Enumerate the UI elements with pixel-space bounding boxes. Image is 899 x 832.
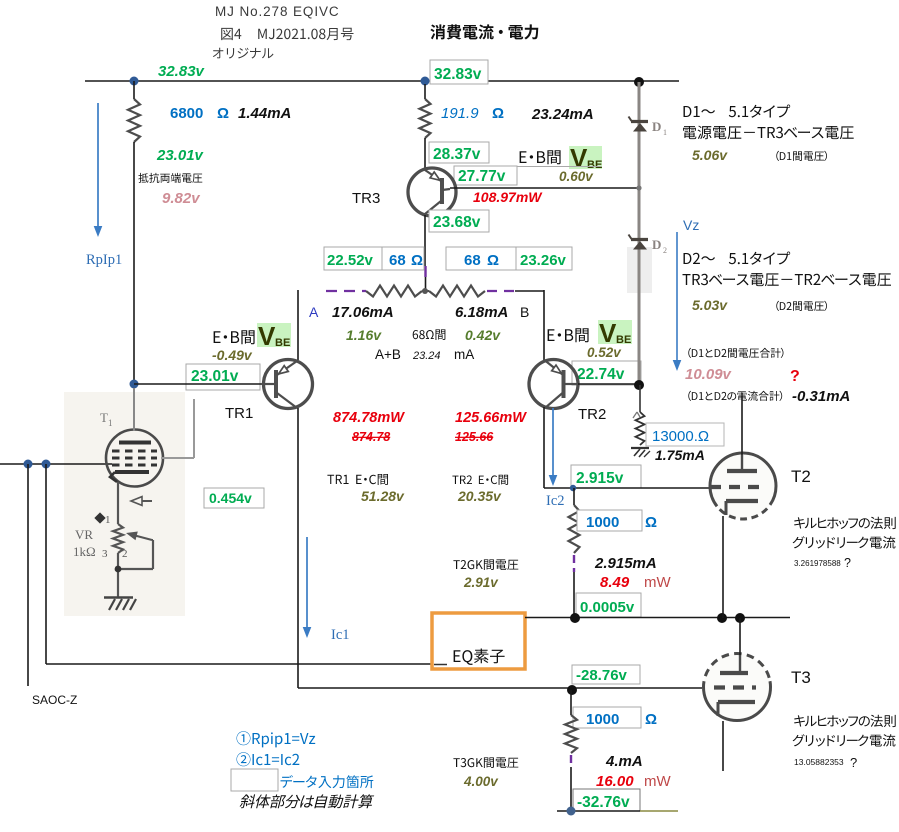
label TR2 E・C間 [452,475,508,485]
svg-text:2: 2 [663,246,667,255]
node 68row junction [422,288,429,294]
svg-text:1.44mA: 1.44mA [238,105,291,122]
wire TR2 base to node [578,383,639,385]
wire T1 cathode [117,482,119,524]
label 0.42v [465,327,501,343]
label 8.49 mW [600,574,671,591]
purple mark TR3 column [424,266,426,277]
wire TR3 base to diode chain [450,187,639,189]
label D2 type [684,252,791,265]
label -0.31mA [792,388,850,405]
svg-text:2.915mA: 2.915mA [594,555,657,572]
label キルヒホッフの法則 T3 [794,715,896,727]
svg-text:T2: T2 [791,467,811,486]
label 23.24mA [531,106,594,123]
wire bottom T3 rail [557,810,678,812]
label pot 3 [102,548,108,560]
wire to R13000 [639,385,641,412]
label 10.09v [685,366,733,383]
node input 1 [24,460,33,469]
box -28.76v [572,665,640,684]
svg-text:3: 3 [102,548,108,560]
label 6800 ohm [170,105,229,122]
label (D1とD2の電流合計) [688,391,782,401]
box 22.74v [572,361,641,385]
svg-text:-0.49v: -0.49v [212,347,253,363]
svg-text:D: D [652,119,661,134]
wiper loop [118,540,153,569]
wire into EQ left [46,663,433,665]
svg-text:B: B [520,304,529,320]
label E・B間 TR3 [520,150,561,164]
svg-text:MJ No.278 EQIVC: MJ No.278 EQIVC [215,4,340,19]
node diode bottom [634,380,644,390]
label 2.91v [463,575,499,590]
wire T3 column lower [570,767,572,811]
wire TR2 collector down [543,407,545,488]
wire T1 plate [133,388,135,431]
resistor R 191.9 [420,99,431,138]
diode D1 [629,117,668,138]
wire T3 column upper [570,690,572,715]
svg-text:1000: 1000 [586,711,619,728]
node TR1 base [130,380,139,389]
svg-text:mW: mW [644,574,671,591]
label 0.52v [587,345,622,360]
node rail 722 [717,613,727,623]
label 51.28v [361,488,405,504]
label (D1とD2間電圧合計) [688,348,783,358]
svg-text:23.24mA: 23.24mA [531,106,594,123]
label Ic2 [546,493,565,509]
svg-text:?: ? [850,755,857,770]
box 23.01v [186,364,260,390]
svg-text:1.75mA: 1.75mA [655,447,705,463]
label 5.03v [692,297,728,313]
svg-text:A: A [309,304,319,320]
label 6.18mA [455,304,508,321]
svg-text:0.42v: 0.42v [465,327,501,343]
wire left column lower [133,142,135,384]
svg-text:5.03v: 5.03v [692,297,728,313]
box -32.76v [573,789,640,811]
box 27.77v [454,166,601,185]
label キルヒホッフの法則 T2 [794,517,896,529]
label D1 type [684,105,791,118]
label 20.35v [457,488,502,504]
svg-text:mA: mA [454,347,474,362]
svg-text:13000.Ω: 13000.Ω [652,428,709,445]
legend 斜体部分は自動計算 [239,794,375,808]
label TR1 [225,405,253,422]
label SAOC-Z [32,693,77,707]
svg-text:0.0005v: 0.0005v [580,599,635,616]
wire input left [0,463,112,465]
label 874.78 strike [352,430,390,444]
label T2GK間電圧 [453,559,518,570]
svg-text:23.01v: 23.01v [191,368,239,385]
node diode junction [636,185,641,190]
svg-text:RpIp1: RpIp1 [86,252,122,268]
svg-text:125.66: 125.66 [455,430,494,444]
box 22.52v / 68 ohm [324,247,424,270]
svg-text:TR1: TR1 [225,405,253,422]
svg-text:1: 1 [663,128,667,137]
label (D1間電圧) [776,151,827,161]
svg-text:1: 1 [108,418,113,428]
label T1 [100,410,113,428]
wire 68row dashed left [326,290,366,292]
svg-text:?: ? [844,556,851,570]
svg-text:?: ? [790,368,800,385]
wire T2 cathode down [722,516,724,618]
node top-left [130,77,139,86]
svg-text:23.24: 23.24 [412,350,441,362]
svg-text:23.68v: 23.68v [433,214,481,231]
label 68Ω間 [413,329,446,340]
label E・B間 TR1 [214,330,255,344]
title line 2 [221,28,353,40]
svg-text:Ω: Ω [411,252,423,269]
label 125.66 strike [455,430,494,444]
label -0.49v [212,347,253,363]
svg-text:1.16v: 1.16v [346,327,382,343]
node bottom T3 [567,807,576,816]
label 1.16v [346,327,382,343]
svg-text:17.06mA: 17.06mA [332,304,394,321]
label E・B間 TR2 [548,328,589,342]
svg-text:20.35v: 20.35v [457,488,502,504]
arrow Vz [673,232,682,371]
label 4.00v [463,774,499,789]
label 23.01v left [156,147,205,164]
title line 1 [215,4,340,19]
purple mark T2 column [573,555,575,572]
label 9.82v [162,190,201,207]
resistor R13000 [636,412,645,445]
heading 消費電流・電力 [430,24,538,39]
resistor 68 ohm A [366,286,422,297]
legend データ入力箇所 [281,775,374,788]
box 1000 ohm T3 [573,707,657,728]
label 23.24 small [412,350,441,362]
label 125.66mW [455,410,527,426]
svg-text:Ω: Ω [487,252,499,269]
svg-text:28.37v: 28.37v [433,146,481,163]
label T3GK間電圧 [453,757,518,768]
legend input box [231,769,278,791]
label 191.9 ohm [441,105,504,122]
svg-text:108.97mW: 108.97mW [473,189,543,205]
wire top rail [85,80,679,82]
title line 3 オリジナル [213,48,274,59]
wire bottom rail [298,687,702,689]
wire TR3 column upper [424,84,426,99]
svg-text:5.06v: 5.06v [692,147,728,163]
scan background behind diode D2 [627,247,652,293]
label 17.06mA [332,304,394,321]
svg-text:32.83v: 32.83v [158,63,206,80]
diode D2 [629,235,668,256]
svg-text:22.52v: 22.52v [327,252,374,269]
label 16.00 mW [596,773,671,790]
tube T1 [106,430,163,487]
label TR1 E・C間 [327,474,388,485]
label A+B [375,347,401,362]
label 電源電圧−TR3ベース電圧 [683,126,854,140]
node 2.915 [570,485,576,491]
label (D2間電圧) [776,301,827,311]
svg-text:-0.31mA: -0.31mA [792,388,850,405]
mark R13000 top [633,412,640,418]
svg-text:Vz: Vz [683,217,699,233]
wire SAOC-Z stub [27,464,29,686]
label A [309,304,319,320]
label 1.75mA [655,447,705,463]
svg-text:10.09v: 10.09v [685,366,733,383]
label VBE TR3 [569,143,602,173]
svg-text:V: V [258,321,276,351]
legend 1 [237,731,316,747]
node top-center [421,77,430,86]
svg-text:68: 68 [464,252,481,269]
wire T2 column lower [573,572,575,618]
wire B corner down [543,290,545,362]
transistor TR1 [264,360,313,409]
svg-text:9.82v: 9.82v [162,190,201,207]
label VR 1kΩ [73,527,96,559]
label Ic1 [331,627,350,643]
wire T1 grid stub [161,399,194,458]
box 1000 ohm T2 [577,510,657,531]
svg-text:125.66mW: 125.66mW [455,410,527,426]
resistor R 6800 [128,99,140,142]
resistor 68 ohm B [429,286,485,297]
svg-text:2.91v: 2.91v [463,575,499,590]
svg-text:mW: mW [644,773,671,790]
svg-text:4.00v: 4.00v [463,774,499,789]
wire diode chain [638,82,641,385]
svg-text:16.00: 16.00 [596,773,634,790]
tube T2 [710,453,776,519]
svg-text:23.01v: 23.01v [156,147,205,164]
svg-text:2: 2 [122,548,128,560]
arrow RpIp1 [94,103,103,237]
svg-text:Ic2: Ic2 [546,493,565,509]
svg-text:23.26v: 23.26v [520,252,567,269]
svg-text:Ic1: Ic1 [331,627,350,643]
wire EQ right to rail [525,617,790,619]
label question red [790,368,800,385]
wire VR to ground [117,553,119,598]
label Vz [683,217,699,233]
label 3.261978588 [794,556,851,570]
wire R191 to TR3 [424,138,426,170]
label 2.915mA [594,555,657,572]
wiper arrow VR1 [126,532,152,541]
svg-text:Ω: Ω [645,514,657,531]
ground T1 [104,598,136,611]
label 5.06v [692,147,728,163]
box 0.0005v [576,593,641,617]
svg-text:0.52v: 0.52v [587,345,622,360]
arrow Ic1 [303,537,312,638]
label mA [454,347,474,362]
node rail 575 [570,613,580,623]
svg-text:51.28v: 51.28v [361,488,405,504]
wire T3 cathode [722,721,724,771]
ground R13000 [631,448,650,457]
svg-text:13.05882353: 13.05882353 [794,757,844,767]
transistor TR2 [529,360,578,409]
box 13000 ohm [646,423,724,446]
svg-text:A+B: A+B [375,347,401,362]
svg-text:SAOC-Z: SAOC-Z [32,693,77,707]
svg-text:8.49: 8.49 [600,574,630,591]
transistor TR3 [408,168,456,216]
box 68 ohm / 23.26v [446,247,572,270]
wire A corner down [297,290,299,360]
svg-text:874.78mW: 874.78mW [333,410,405,426]
svg-text:Ω: Ω [492,105,504,122]
box 28.37v [429,142,489,163]
svg-text:4.mA: 4.mA [605,753,643,770]
box 32.83v top [430,60,488,84]
svg-text:T: T [100,410,108,425]
svg-text:BE: BE [275,337,290,349]
box 0.454v [204,488,264,508]
svg-text:32.83v: 32.83v [434,66,482,83]
purple mark T3 column [570,755,572,767]
box 2.915v [571,465,641,488]
svg-text:TR3: TR3 [352,190,380,207]
label グリッドリーク電流 T3 [793,734,896,746]
label 4.mA [605,753,643,770]
wire TR1 collector down [297,408,299,688]
node bottom rail [567,685,577,695]
node top-right diode [634,77,644,87]
label pot 2 [122,548,128,560]
svg-text:2.915v: 2.915v [576,470,624,487]
svg-text:VR: VR [75,527,93,542]
potentiometer VR1 [113,524,123,553]
label diamond 1 [94,512,110,526]
wire T2 column [573,488,575,505]
svg-text:TR2: TR2 [578,406,606,423]
svg-text:1000: 1000 [586,514,619,531]
wire TR2 collector to T2 grid [544,487,710,489]
label VBE TR2 [598,318,632,348]
svg-text:Ω: Ω [645,711,657,728]
svg-text:-28.76v: -28.76v [576,667,628,684]
arrow Ic2 [549,408,558,486]
wire left column upper [133,81,135,99]
label 1.44mA [238,105,291,122]
svg-text:Ω: Ω [217,105,229,122]
label TR3 [352,190,380,207]
svg-text:1: 1 [105,514,111,526]
svg-text:27.77v: 27.77v [458,168,506,185]
svg-text:-32.76v: -32.76v [577,794,630,811]
label 0.60v [559,169,594,184]
box 23.68v [429,210,489,232]
label RpIp1 [86,252,122,268]
label グリッドリーク電流 T2 [793,536,896,548]
scan background behind tube T1 [64,392,185,616]
node rail 740 [735,613,745,623]
label 13.05882353 [794,755,857,770]
annotation arrow cathode [131,497,152,506]
legend 2 [237,752,300,766]
label 108.97mW [473,189,543,205]
svg-text:3.261978588: 3.261978588 [794,559,841,568]
label T2 [791,467,811,486]
label B [520,304,529,320]
svg-text:6800: 6800 [170,105,203,122]
node input 2 [42,460,51,469]
label VBE TR1 [257,321,291,351]
label TR3ベース電圧−TR2ベース電圧 [683,273,892,286]
wire TR1 base [134,383,264,385]
wire TR3 collector down [424,215,426,266]
svg-text:191.9: 191.9 [441,105,479,122]
svg-text:68: 68 [389,252,406,269]
label 874.78mW [333,410,405,426]
label TR2 [578,406,606,423]
EQ素子 box [432,613,525,669]
tube T3 [704,654,771,721]
label 抵抗両端電圧 [138,173,202,183]
svg-text:1kΩ: 1kΩ [73,544,96,559]
svg-text:6.18mA: 6.18mA [455,304,508,321]
svg-text:0.454v: 0.454v [209,490,252,506]
svg-text:22.74v: 22.74v [577,366,625,383]
resistor R1000 T2 [569,505,580,553]
resistor R1000 T3 [565,715,577,753]
wire T2 plate up [741,393,743,455]
svg-text:D: D [652,237,661,252]
wire T3 plate [739,618,741,655]
svg-text:T3: T3 [791,668,811,687]
wire loop left down [45,464,47,664]
svg-text:0.60v: 0.60v [559,169,594,184]
wire 68row dashed right [487,290,544,292]
node VR bottom [115,566,122,573]
label 32.83v left [158,63,206,80]
label T3 [791,668,811,687]
svg-text:V: V [599,318,617,348]
svg-text:874.78: 874.78 [352,430,390,444]
wire TR3 column to junction [425,277,427,291]
